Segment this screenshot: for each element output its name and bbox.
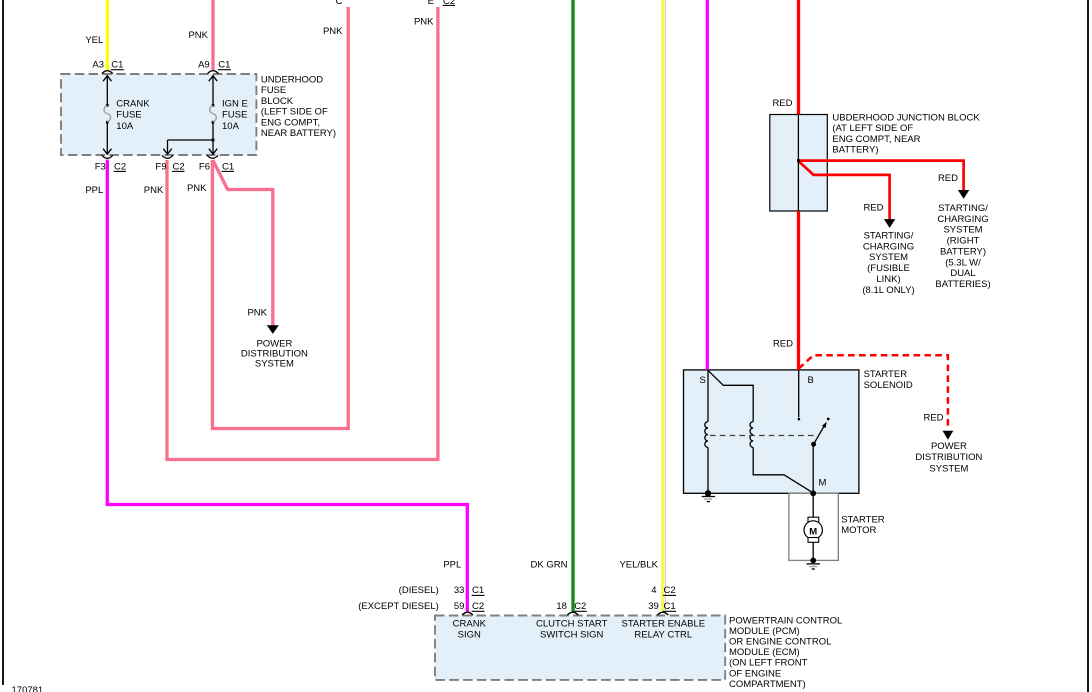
svg-text:(FUSIBLE: (FUSIBLE: [867, 263, 910, 274]
svg-text:33: 33: [454, 585, 465, 596]
svg-text:4: 4: [651, 585, 656, 596]
svg-text:C2: C2: [664, 585, 676, 596]
svg-text:BATTERY): BATTERY): [832, 145, 878, 156]
svg-text:C2: C2: [472, 601, 484, 612]
svg-text:PNK: PNK: [187, 183, 207, 194]
svg-text:POWERTRAIN CONTROL: POWERTRAIN CONTROL: [729, 615, 842, 626]
svg-text:MODULE (PCM): MODULE (PCM): [729, 626, 800, 637]
svg-text:FUSE: FUSE: [222, 110, 247, 121]
svg-text:170781: 170781: [12, 685, 44, 692]
svg-text:ENG COMPT, NEAR: ENG COMPT, NEAR: [832, 134, 920, 145]
svg-text:C1: C1: [222, 161, 234, 172]
svg-text:UBDERHOOD JUNCTION BLOCK: UBDERHOOD JUNCTION BLOCK: [832, 113, 980, 124]
svg-text:OR ENGINE CONTROL: OR ENGINE CONTROL: [729, 636, 831, 647]
svg-text:OF ENGINE: OF ENGINE: [729, 668, 781, 679]
svg-text:RED: RED: [863, 203, 883, 214]
svg-text:RED: RED: [923, 413, 943, 424]
svg-text:PNK: PNK: [188, 30, 208, 41]
svg-text:COMPARTMENT): COMPARTMENT): [729, 679, 806, 690]
svg-text:(LEFT SIDE OF: (LEFT SIDE OF: [261, 107, 328, 118]
svg-text:PNK: PNK: [323, 26, 343, 37]
svg-text:F3: F3: [95, 161, 106, 172]
svg-text:PPL: PPL: [443, 559, 461, 570]
svg-text:SYSTEM: SYSTEM: [255, 359, 294, 370]
svg-text:C: C: [336, 0, 343, 7]
svg-text:C2: C2: [574, 601, 586, 612]
svg-text:C2: C2: [443, 0, 455, 7]
svg-text:NEAR BATTERY): NEAR BATTERY): [261, 128, 336, 139]
svg-text:RELAY CTRL: RELAY CTRL: [634, 630, 692, 641]
svg-text:STARTER: STARTER: [841, 514, 885, 525]
svg-text:RED: RED: [772, 98, 792, 109]
svg-text:SYSTEM: SYSTEM: [929, 463, 968, 474]
svg-text:SWITCH SIGN: SWITCH SIGN: [540, 630, 603, 641]
svg-text:PNK: PNK: [414, 17, 434, 28]
svg-text:CRANK: CRANK: [453, 619, 487, 630]
svg-text:MODULE (ECM): MODULE (ECM): [729, 647, 800, 658]
svg-text:CHARGING: CHARGING: [863, 241, 914, 252]
svg-text:MOTOR: MOTOR: [841, 525, 876, 536]
svg-text:DK GRN: DK GRN: [531, 559, 568, 570]
svg-text:A3: A3: [92, 60, 104, 71]
svg-text:39: 39: [648, 601, 659, 612]
svg-text:S: S: [700, 375, 706, 386]
svg-text:C1: C1: [218, 60, 230, 71]
svg-text:YEL/BLK: YEL/BLK: [619, 559, 658, 570]
svg-text:(AT LEFT SIDE OF: (AT LEFT SIDE OF: [832, 123, 913, 134]
svg-text:SIGN: SIGN: [458, 630, 481, 641]
svg-text:BLOCK: BLOCK: [261, 96, 294, 107]
svg-text:FUSE: FUSE: [116, 110, 141, 121]
svg-text:F6: F6: [199, 161, 210, 172]
svg-text:C1: C1: [111, 60, 123, 71]
svg-text:STARTER: STARTER: [864, 369, 908, 380]
svg-text:B: B: [808, 375, 814, 386]
svg-text:BATTERIES): BATTERIES): [935, 279, 990, 290]
svg-text:STARTER ENABLE: STARTER ENABLE: [622, 619, 706, 630]
svg-text:DISTRIBUTION: DISTRIBUTION: [915, 452, 982, 463]
svg-text:CRANK: CRANK: [116, 99, 150, 110]
svg-text:C1: C1: [664, 601, 676, 612]
svg-text:C1: C1: [472, 585, 484, 596]
svg-text:(RIGHT: (RIGHT: [947, 236, 980, 247]
svg-text:FUSE: FUSE: [261, 85, 286, 96]
svg-text:DUAL: DUAL: [950, 268, 975, 279]
svg-text:SOLENOID: SOLENOID: [864, 380, 913, 391]
svg-text:PNK: PNK: [144, 185, 164, 196]
svg-text:CLUTCH START: CLUTCH START: [536, 619, 608, 630]
svg-text:RED: RED: [938, 173, 958, 184]
svg-text:C2: C2: [114, 161, 126, 172]
svg-text:STARTING/: STARTING/: [864, 231, 914, 242]
svg-text:UNDERHOOD: UNDERHOOD: [261, 75, 323, 86]
svg-text:YEL: YEL: [85, 35, 103, 46]
svg-text:18: 18: [556, 601, 567, 612]
svg-text:C2: C2: [173, 161, 185, 172]
svg-text:CHARGING: CHARGING: [937, 214, 988, 225]
svg-text:SYSTEM: SYSTEM: [943, 225, 982, 236]
svg-text:SYSTEM: SYSTEM: [869, 252, 908, 263]
svg-text:IGN E: IGN E: [222, 99, 248, 110]
svg-text:STARTING/: STARTING/: [938, 203, 988, 214]
svg-text:(EXCEPT DIESEL): (EXCEPT DIESEL): [358, 601, 439, 612]
svg-text:M: M: [809, 526, 817, 537]
svg-text:(5.3L W/: (5.3L W/: [945, 257, 981, 268]
svg-text:ENG COMPT,: ENG COMPT,: [261, 117, 320, 128]
svg-text:M: M: [819, 477, 827, 488]
svg-text:10A: 10A: [116, 121, 134, 132]
svg-text:(ON LEFT FRONT: (ON LEFT FRONT: [729, 658, 808, 669]
svg-text:(8.1L ONLY): (8.1L ONLY): [862, 285, 914, 296]
svg-text:BATTERY): BATTERY): [940, 246, 986, 257]
svg-text:LINK): LINK): [876, 274, 900, 285]
svg-text:PPL: PPL: [85, 185, 103, 196]
svg-text:PNK: PNK: [247, 308, 267, 319]
svg-text:(DIESEL): (DIESEL): [399, 585, 439, 596]
svg-text:A9: A9: [198, 60, 210, 71]
svg-text:10A: 10A: [222, 121, 240, 132]
svg-text:RED: RED: [773, 339, 793, 350]
svg-text:E: E: [428, 0, 434, 7]
svg-text:59: 59: [454, 601, 465, 612]
svg-text:F9: F9: [155, 161, 166, 172]
svg-text:POWER: POWER: [931, 441, 967, 452]
